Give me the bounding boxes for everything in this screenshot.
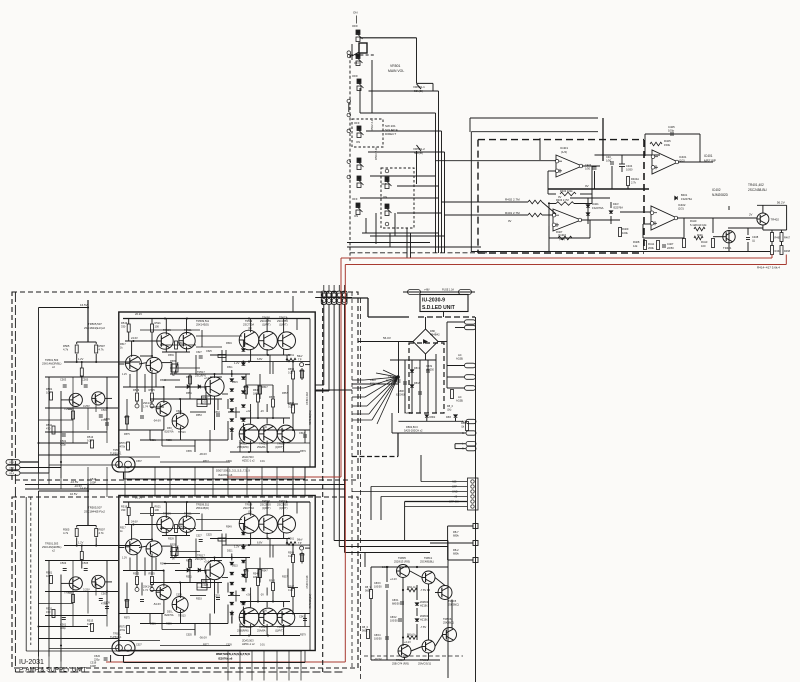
wire — [410, 571, 422, 578]
svg-text:150k: 150k — [664, 143, 671, 147]
resistor R809 560k — [370, 590, 373, 599]
svg-text:R511: R511 — [46, 607, 53, 611]
svg-text:TR509,511: TR509,511 — [196, 503, 210, 507]
svg-text:50k(B): 50k(B) — [414, 151, 423, 155]
svg-text:25A/C/S/11: 25A/C/S/11 — [418, 662, 432, 666]
svg-text:9.2k: 9.2k — [87, 622, 93, 626]
junction — [267, 354, 269, 356]
box supply dashed jog — [352, 456, 398, 458]
wire — [627, 186, 629, 189]
box switch column top — [350, 54, 376, 56]
wire — [305, 547, 310, 549]
switch S5 — [357, 158, 364, 170]
wire — [242, 340, 244, 347]
svg-text:C527: C527 — [196, 535, 202, 538]
transistor TR507' — [146, 541, 162, 557]
svg-text:C533: C533 — [214, 595, 220, 598]
wire — [162, 535, 190, 537]
junction — [292, 361, 294, 363]
svg-text:25K38(C): 25K38(C) — [443, 621, 454, 625]
resistor R402b 100k — [560, 192, 576, 196]
wire — [163, 387, 165, 403]
wire — [194, 440, 196, 452]
capacitor C503 100p — [63, 385, 67, 387]
wire — [126, 583, 128, 614]
svg-text:R569: R569 — [299, 370, 305, 373]
svg-text:1.2V: 1.2V — [122, 373, 127, 376]
wire — [425, 317, 427, 322]
transistor TR503 — [92, 392, 105, 405]
wire — [170, 367, 200, 369]
wire — [81, 362, 83, 368]
svg-text:2SB(R/W): 2SB(R/W) — [237, 629, 249, 633]
wire — [240, 429, 293, 431]
resistor R511 470 — [52, 426, 55, 434]
svg-text:C529: C529 — [176, 594, 182, 597]
svg-text:R573 22(1W): R573 22(1W) — [309, 410, 312, 425]
capacitor C405b 1/50 — [610, 162, 614, 164]
wire — [186, 319, 188, 335]
wire — [781, 242, 783, 246]
wire — [38, 308, 40, 474]
svg-text:2SC2458-BL!: 2SC2458-BL! — [748, 188, 767, 192]
wire — [151, 370, 153, 392]
switch SW201 — [357, 126, 364, 138]
wire — [266, 441, 268, 452]
wire — [570, 197, 610, 199]
svg-text:100/50: 100/50 — [374, 638, 382, 641]
trimmer R535' — [171, 548, 178, 556]
pad P3 — [473, 558, 478, 563]
wire red up 2 — [785, 255, 787, 265]
svg-text:R411: R411 — [648, 242, 655, 246]
wire — [95, 582, 97, 596]
svg-text:R535: R535 — [170, 544, 176, 547]
wire — [227, 583, 229, 593]
junction — [81, 361, 83, 363]
resistor R404A 2.7k — [627, 177, 630, 186]
wire — [455, 448, 466, 450]
svg-text:-2V: -2V — [260, 594, 264, 597]
wire — [136, 585, 138, 588]
wire — [196, 530, 222, 532]
wire — [39, 454, 119, 456]
resistor R573 470k — [127, 442, 130, 450]
wire — [246, 467, 248, 497]
wire — [283, 602, 285, 608]
wire arrow VR501-1 — [417, 84, 422, 89]
svg-text:8mV: 8mV — [262, 610, 267, 613]
wire — [170, 373, 250, 375]
svg-text:0.22: 0.22 — [288, 555, 293, 558]
svg-text:R545: R545 — [243, 570, 249, 573]
svg-text:D817: D817 — [414, 367, 421, 370]
wire — [747, 228, 749, 235]
svg-text:R537: R537 — [124, 600, 130, 603]
wire — [239, 440, 241, 452]
svg-text:x2: x2 — [52, 549, 55, 553]
wire — [196, 519, 242, 521]
svg-text:(Q/P/T): (Q/P/T) — [262, 323, 271, 327]
svg-text:(L)/250: (L)/250 — [426, 369, 435, 372]
wire 56V rail — [757, 204, 787, 206]
box channel right dashed — [351, 292, 353, 668]
svg-text:C535: C535 — [186, 450, 192, 453]
wire — [620, 211, 651, 213]
svg-text:R577: R577 — [203, 460, 209, 463]
wire — [239, 624, 241, 636]
svg-text:0.22: 0.22 — [288, 406, 293, 409]
svg-text:200k: 200k — [648, 246, 654, 250]
box channel outer — [12, 292, 358, 480]
wire channel to supply — [315, 389, 352, 391]
box channel inner — [119, 312, 315, 467]
wire to supply cluster — [345, 552, 431, 554]
transistor TR517' — [205, 561, 224, 580]
svg-text:22/50: 22/50 — [667, 246, 674, 250]
diode diode D5b4'' — [242, 588, 246, 591]
wire — [210, 354, 290, 356]
wire cap bank 5 — [427, 360, 429, 413]
svg-text:D507,509,5_3,5_5,5_7,5_9: D507,509,5_3,5_5,5_7,5_9 — [216, 469, 250, 473]
wire — [165, 319, 167, 335]
wire — [212, 467, 214, 497]
connector L — [466, 442, 476, 446]
wire block bottom — [471, 251, 770, 253]
junction' — [95, 544, 97, 546]
wire — [250, 319, 252, 333]
wire — [391, 413, 393, 433]
resistor R410 10k — [694, 227, 705, 231]
svg-text:680/50: 680/50 — [392, 603, 400, 606]
wire — [235, 407, 237, 418]
svg-text:4.7k: 4.7k — [63, 348, 69, 352]
op-amp IC402 1/2 — [552, 209, 582, 231]
svg-text:M5218P: M5218P — [704, 159, 716, 163]
junction' — [76, 544, 78, 546]
wire bus down 5 — [344, 304, 346, 552]
wire — [246, 568, 273, 570]
wire — [61, 582, 69, 584]
svg-text:D818: D818 — [414, 382, 421, 385]
wire SW201 out — [366, 130, 442, 132]
wire — [416, 608, 418, 616]
junction — [163, 386, 165, 388]
wire — [416, 585, 418, 600]
wire — [454, 444, 456, 449]
svg-text:C535: C535 — [186, 634, 192, 637]
wire — [240, 601, 290, 603]
resistor R513 9.2k — [91, 440, 94, 448]
trimmer R535 — [171, 364, 178, 372]
resistor R405 150k — [650, 142, 662, 146]
svg-text:R407: R407 — [556, 230, 563, 234]
wire — [195, 539, 197, 558]
wire — [186, 530, 188, 535]
zener ZD501 — [202, 396, 211, 404]
svg-text:100: 100 — [155, 508, 160, 512]
wire — [266, 602, 268, 608]
svg-text:OFF: OFF — [452, 486, 457, 489]
capacitor C542 — [303, 435, 307, 437]
wire — [644, 134, 646, 156]
resistor R565' — [272, 583, 275, 591]
wire LED unit top — [403, 291, 475, 293]
svg-text:C40_: C40_ — [606, 155, 613, 159]
wire supply right edge — [475, 317, 477, 682]
connector p1 — [465, 320, 476, 324]
wire — [293, 613, 310, 615]
svg-text:C539: C539 — [226, 644, 232, 647]
wire — [39, 638, 119, 640]
wire — [712, 218, 714, 233]
svg-text:C549 0.018: C549 0.018 — [306, 391, 309, 405]
svg-text:R559: R559 — [240, 602, 246, 605]
svg-text:TR623: TR623 — [262, 499, 270, 503]
resistor R515' — [72, 595, 75, 603]
wire — [39, 419, 74, 421]
wire — [304, 430, 306, 443]
wire — [154, 467, 156, 497]
svg-text:25K145(D): 25K145(D) — [196, 323, 209, 327]
wire — [402, 578, 404, 647]
svg-text:R505: R505 — [63, 528, 70, 532]
wire — [201, 330, 203, 347]
svg-text:100: 100 — [46, 574, 51, 578]
svg-text:IC402: IC402 — [712, 188, 721, 192]
wire — [64, 545, 140, 547]
wire — [155, 374, 157, 387]
svg-text:HZ5C-1 x2: HZ5C-1 x2 — [242, 459, 255, 463]
connector strip CN802 — [468, 478, 479, 510]
svg-text:0V: 0V — [558, 195, 562, 199]
svg-text:MAIN VOL: MAIN VOL — [388, 69, 404, 73]
junction — [37, 442, 39, 444]
resistor R547 — [259, 386, 262, 394]
wire — [309, 502, 311, 651]
wire — [370, 567, 372, 590]
svg-text:2SC750A: 2SC750A — [243, 323, 254, 327]
svg-text:2.7k: 2.7k — [631, 181, 637, 185]
wire — [123, 456, 160, 458]
wire — [447, 376, 465, 378]
svg-text:R468: R468 — [784, 250, 791, 253]
wire — [60, 391, 62, 478]
feedback loop R403 — [548, 203, 556, 205]
svg-text:4B4B42: 4B4B42 — [430, 333, 440, 337]
wire — [186, 502, 188, 518]
svg-text:1.2V: 1.2V — [234, 361, 240, 365]
svg-text:NJM2082D: NJM2082D — [712, 193, 729, 197]
resistor R401 2.7M — [528, 213, 542, 217]
wire — [445, 214, 529, 216]
wire — [269, 539, 271, 558]
resistor R545' — [245, 570, 248, 578]
junction — [60, 461, 62, 463]
transistor TR803 FET — [438, 586, 452, 600]
diode D813 — [454, 415, 458, 418]
wire VR501-2 side — [416, 151, 418, 184]
wire — [87, 408, 89, 430]
svg-text:R549: R549 — [226, 526, 232, 529]
connector AC2 — [465, 386, 476, 391]
wire — [292, 467, 294, 497]
wire — [227, 651, 229, 681]
box IC dashed top — [478, 139, 644, 141]
svg-text:R569: R569 — [299, 554, 305, 557]
wire feed corner — [420, 455, 422, 482]
resistor R521 100' — [151, 508, 154, 516]
svg-text:R467: R467 — [784, 237, 791, 240]
diode diode D5b0 — [242, 349, 246, 352]
wire — [239, 651, 241, 681]
wire feed GND — [352, 491, 467, 493]
diode diode D5b2'' — [242, 560, 246, 563]
resistor R527' — [175, 525, 178, 533]
wire — [175, 570, 206, 572]
svg-text:FUSE 1.3A: FUSE 1.3A — [442, 289, 454, 292]
svg-text:6.8V: 6.8V — [257, 541, 263, 545]
svg-text:-56.0V: -56.0V — [404, 411, 412, 415]
svg-text:R501: R501 — [46, 387, 53, 391]
svg-text:24.6V: 24.6V — [131, 520, 138, 524]
wire — [39, 307, 89, 309]
transistor TR501 — [69, 393, 82, 406]
pin E — [347, 129, 351, 133]
svg-text:25C485(BL): 25C485(BL) — [420, 560, 434, 564]
diode diode D5a5 — [230, 429, 234, 432]
svg-text:TR401,402: TR401,402 — [748, 183, 764, 187]
diode diode D5a0'' — [230, 562, 234, 565]
svg-text:C407: C407 — [667, 242, 674, 246]
wire bus 2 — [438, 91, 440, 253]
svg-text:2SK146(GR/BL): 2SK146(GR/BL) — [42, 545, 62, 549]
svg-text:2SC1844(E-F)x2: 2SC1844(E-F)x2 — [84, 510, 105, 514]
svg-text:4.7k: 4.7k — [99, 531, 105, 535]
wire — [257, 385, 259, 394]
svg-text:C533: C533 — [214, 411, 220, 414]
zener C553 — [197, 400, 207, 407]
wire — [257, 569, 259, 578]
transistor TR623 — [259, 331, 278, 350]
svg-text:R465: R465 — [775, 237, 782, 240]
wire bridge bottom — [425, 354, 427, 360]
junction — [292, 429, 294, 431]
wire CN-1 — [20, 461, 39, 463]
svg-text:TR402: TR402 — [771, 218, 780, 222]
wire — [38, 657, 40, 673]
junction — [248, 451, 250, 453]
wire — [455, 418, 457, 421]
wire — [728, 206, 730, 210]
wire feed A55 — [421, 481, 467, 483]
wire to connector A — [399, 420, 464, 422]
diode diode D5b5 — [242, 419, 246, 422]
transistor TR627 — [278, 332, 296, 350]
wire — [348, 103, 350, 112]
wire — [140, 355, 152, 357]
wire — [410, 233, 412, 258]
wire — [286, 355, 288, 362]
wire — [250, 502, 252, 516]
wire — [292, 563, 294, 588]
wire — [435, 578, 445, 586]
bracket R505/R507 — [77, 341, 97, 343]
zener ZD804 HZ1B-2 — [415, 619, 419, 622]
wire — [38, 491, 40, 657]
svg-text:D511: D511 — [227, 366, 233, 369]
capacitor C501 420p' — [62, 618, 66, 620]
svg-text:ZD8O3: ZD8O3 — [420, 600, 429, 604]
resistor R563 0.22 — [292, 371, 295, 379]
resistor R501 100 — [50, 392, 53, 400]
wire to connector L — [392, 432, 466, 434]
svg-text:R535: R535 — [170, 360, 176, 363]
junction' — [272, 600, 274, 602]
svg-text:VR501: VR501 — [390, 64, 400, 68]
wire — [442, 201, 529, 203]
wire — [151, 516, 153, 540]
wire — [151, 319, 153, 325]
wire — [150, 582, 222, 584]
wire — [283, 533, 285, 539]
svg-text:CN-2: CN-2 — [9, 468, 15, 470]
wire — [210, 376, 222, 378]
wire — [283, 624, 285, 635]
wire — [144, 374, 146, 392]
svg-text:TR513: TR513 — [178, 431, 186, 434]
svg-text:R549: R549 — [226, 342, 232, 345]
transistor TR804 — [398, 645, 411, 658]
wire — [386, 590, 388, 660]
svg-text:TR50_: TR50_ — [113, 632, 121, 636]
svg-text:TR5-9: TR5-9 — [245, 503, 253, 507]
wire — [288, 651, 290, 681]
transistor TR623' — [259, 515, 278, 534]
feedback loop IC401 — [547, 171, 549, 194]
wire — [221, 362, 223, 374]
junction — [386, 566, 388, 568]
svg-text:C503: C503 — [60, 561, 67, 565]
wire red feed 1 — [341, 257, 772, 259]
wire bridge right — [438, 341, 447, 343]
wire — [160, 461, 230, 463]
svg-text:180: 180 — [253, 393, 258, 396]
wire — [151, 332, 153, 356]
wire — [610, 202, 612, 208]
svg-text:R511: R511 — [46, 423, 53, 427]
wire — [272, 591, 274, 602]
wire — [222, 361, 260, 363]
svg-text:-7.8V: -7.8V — [420, 625, 426, 629]
wire — [786, 205, 788, 230]
junction' — [179, 581, 181, 583]
svg-text:R408: R408 — [633, 240, 640, 244]
wire — [595, 154, 661, 156]
wire — [45, 431, 107, 433]
wire — [128, 516, 130, 525]
svg-text:+48V: +48V — [424, 289, 430, 292]
switch S7 — [356, 203, 363, 215]
junction' — [286, 501, 288, 503]
wire — [190, 595, 206, 597]
diode diode D531' — [198, 568, 201, 572]
svg-text:HZ5C-1 x2: HZ5C-1 x2 — [242, 642, 255, 646]
junction' — [248, 544, 250, 546]
wire — [39, 626, 89, 628]
svg-text:R561: R561 — [288, 538, 295, 541]
wire — [38, 473, 40, 489]
